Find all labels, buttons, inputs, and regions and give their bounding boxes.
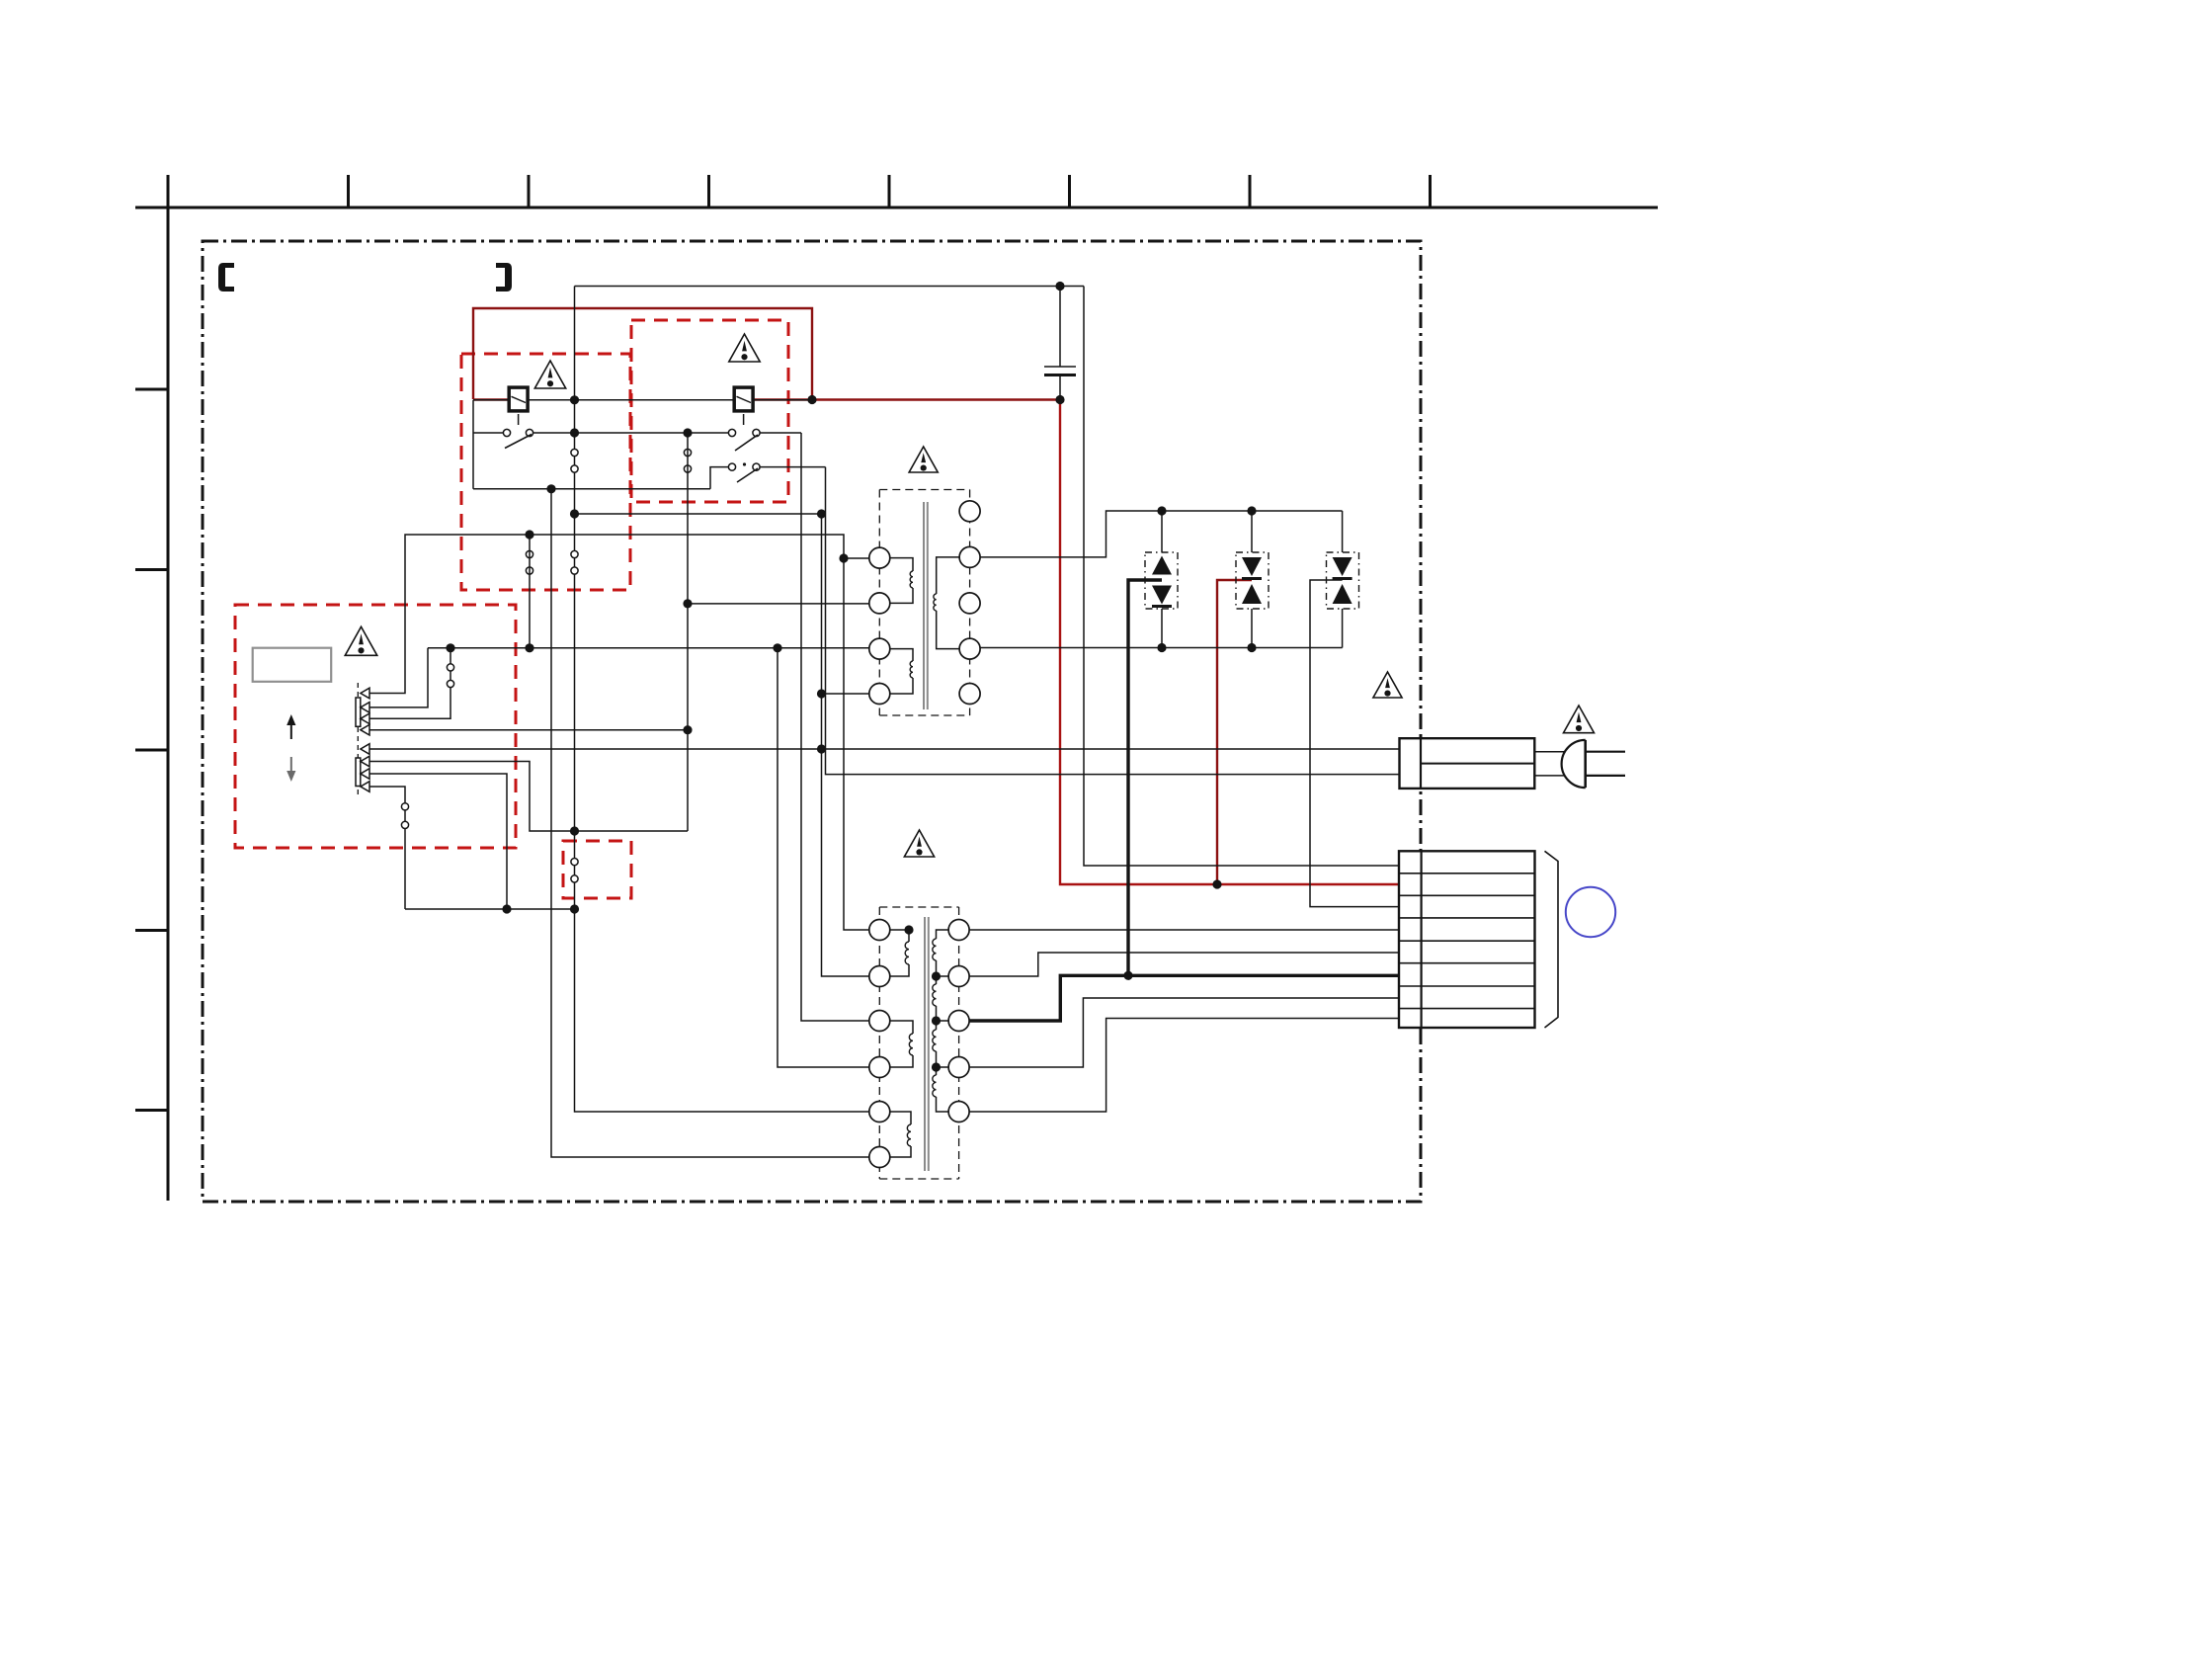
wire cord to plug <box>1534 752 1565 776</box>
junction node 3 <box>807 395 816 404</box>
slide switch dashed axis <box>357 683 359 798</box>
connector CN901 block <box>1399 851 1535 1028</box>
ruler tick left 1 <box>135 388 168 391</box>
T901 pin left 4 <box>869 684 890 705</box>
connector bracket <box>1545 851 1559 1028</box>
red dashed box mechanism C <box>235 605 516 848</box>
T901 pin left 2 <box>869 593 890 614</box>
wire y541 top link <box>369 535 844 694</box>
wire switch row2 right <box>760 466 826 468</box>
border ruler left line <box>167 175 170 1201</box>
junction node 5 <box>570 428 579 437</box>
wire x787 drop to transformer pin4 <box>778 648 869 1067</box>
red dashed box switch block A <box>461 354 630 590</box>
wire diode3 leads <box>1342 511 1344 648</box>
junction node 6 <box>683 428 692 437</box>
contact pair on x696 upper <box>684 449 691 456</box>
AC plug <box>1562 740 1586 788</box>
wire contact2 riser <box>369 648 428 707</box>
wire T902 out pin5 <box>969 1019 1399 1113</box>
junction node 8 <box>525 530 533 539</box>
slide contact 3 <box>361 713 369 724</box>
ruler tick top 6 <box>1068 175 1071 208</box>
relay RY901 <box>509 387 528 411</box>
wire switch row1 left <box>473 432 504 434</box>
warning triangle mechanism <box>345 626 376 655</box>
ruler tick top 7 <box>1249 175 1252 208</box>
AC cord block <box>1400 738 1535 789</box>
slide switch slider upper <box>356 698 361 726</box>
T902 pin right 2 <box>948 966 969 987</box>
wire diode bottom bus <box>980 647 1343 649</box>
wire right drop to connector pin1 <box>1084 287 1399 867</box>
warning triangle cord left <box>1373 672 1402 698</box>
T902 winding left A <box>890 930 909 942</box>
wire left return riser <box>472 400 474 489</box>
slide switch slider lower <box>356 758 361 787</box>
wire primary red loop <box>473 308 812 399</box>
contact pair in red box D <box>571 859 578 866</box>
wire T902 out pin2 <box>969 953 1399 976</box>
T901 pin right 1 <box>959 501 980 522</box>
junction node 21 <box>773 643 781 652</box>
junction node 13 <box>817 744 826 753</box>
wire diode3 tap <box>1310 580 1399 907</box>
gray mechanism box <box>253 648 332 682</box>
wire switch row2 left <box>710 467 729 489</box>
wire red under relay1 <box>473 398 509 400</box>
switch S2 contacts <box>728 463 735 470</box>
wire red diode2 tap <box>1217 580 1252 884</box>
T902 pin right 1 <box>948 920 969 941</box>
diode pair D901 <box>1145 552 1178 609</box>
junction node 16 <box>683 599 692 608</box>
junction node 18 <box>683 725 692 734</box>
T901 pin right 5 <box>959 684 980 705</box>
ruler tick top 8 <box>1429 175 1432 208</box>
slide contact 4 <box>361 724 369 735</box>
ruler tick top 5 <box>888 175 891 208</box>
wire x696 column <box>687 433 689 831</box>
wire secondary to diode bus <box>980 511 1343 557</box>
junction node 4 <box>570 395 579 404</box>
T902 pin left 4 <box>869 1057 890 1078</box>
border ruler top line <box>135 207 1658 209</box>
wire return bottom <box>473 488 710 490</box>
wire red live feed to connector <box>1060 400 1399 885</box>
slide contact 6 <box>361 756 369 767</box>
arrow down <box>290 757 292 771</box>
transformer T902 dashed box <box>879 907 958 1179</box>
T902 pin left 1 <box>869 920 890 941</box>
slide contact 5 <box>361 744 369 755</box>
wire y611 to transformer pin2t <box>688 603 869 605</box>
switch S1-2 contacts <box>728 429 735 436</box>
diode pair D902 <box>1236 552 1269 609</box>
ruler tick left 5 <box>135 1109 168 1112</box>
wire y702 stub to transformer pin4t <box>822 693 869 695</box>
junction node 14 <box>446 643 454 652</box>
slide contact 1 <box>361 688 369 699</box>
ruler tick top 3 <box>528 175 531 208</box>
T902 pin left 5 <box>869 1102 890 1123</box>
wire contact4 <box>369 729 688 731</box>
wire relay row <box>473 399 812 401</box>
ruler tick left 3 <box>135 749 168 752</box>
junction node 27 <box>1123 971 1132 980</box>
ruler tick left 2 <box>135 568 168 571</box>
wire T902 out pin1 <box>969 929 1399 931</box>
wire x536 upper column <box>529 535 531 648</box>
junction node 22 <box>1157 506 1166 515</box>
contact pair on x581 upper <box>571 449 578 456</box>
junction node 29 <box>932 1016 941 1025</box>
left lens bracket <box>218 263 234 291</box>
chassis dash-dot border box <box>203 241 1421 1202</box>
callout blue circle <box>1566 887 1615 937</box>
wire y520 link <box>575 513 822 515</box>
junction node 24 <box>1157 643 1166 652</box>
junction node 2 <box>1055 395 1064 404</box>
wire cord line1 <box>369 748 1400 750</box>
slide contact 7 <box>361 769 369 780</box>
ruler tick top 1 <box>167 175 170 208</box>
junction node 30 <box>932 1062 941 1071</box>
junction node 26 <box>1212 879 1221 888</box>
switch S1-1 contacts <box>503 429 510 436</box>
transformer T902 core <box>924 917 926 1171</box>
wire red relay2 to corner <box>752 398 812 400</box>
junction node 19 <box>502 904 511 913</box>
wire T902 out pin3 thick <box>969 975 1399 1021</box>
wire switch row1 mid <box>533 432 729 434</box>
T902 pin left 2 <box>869 966 890 987</box>
wire contact8 drop <box>369 787 575 909</box>
T901 pin right 4 <box>959 638 980 659</box>
warning triangle transformer T902 <box>904 830 934 857</box>
wire switch row1 right <box>760 432 801 434</box>
wire diode2 leads <box>1251 511 1253 648</box>
junction node 28 <box>932 971 941 980</box>
junction node 31 <box>904 925 913 934</box>
junction node 11 <box>817 509 826 518</box>
T901 pin left 1 <box>869 547 890 568</box>
relay RY902 <box>734 387 753 411</box>
T902 winding taps <box>937 976 949 1067</box>
wire top bus <box>575 286 1085 288</box>
capacitor C901 <box>1044 287 1076 400</box>
wire y655 bus left <box>428 647 869 649</box>
T902 pin left 3 <box>869 1011 890 1032</box>
wire T902 out pin4 <box>969 998 1399 1067</box>
T901 pin right 3 <box>959 593 980 614</box>
wire x831 drop to transformer pin2 <box>822 514 869 976</box>
AC plug prongs <box>1586 752 1625 776</box>
wire x854 drop to transformer pin1 <box>844 558 869 930</box>
wire cord line2 <box>826 467 1400 775</box>
T901 pin right 2 <box>959 546 980 567</box>
T901 pin left 3 <box>869 638 890 659</box>
contact pair on x456 <box>447 664 453 671</box>
wire contact3 riser <box>369 648 451 719</box>
junction node 10 <box>570 509 579 518</box>
junction node 7 <box>546 484 555 493</box>
T902 winding left C <box>890 1112 911 1124</box>
transformer T901 core <box>923 502 925 709</box>
warning triangle relay1 <box>534 361 565 388</box>
diode pair D903 <box>1327 552 1359 609</box>
T901 winding right <box>937 557 959 594</box>
T901 winding left lower <box>890 649 913 661</box>
wire contact7 drop <box>369 774 507 909</box>
contact pair on x410 <box>401 803 408 810</box>
wire long vertical to transformer pin5 <box>575 287 869 1113</box>
T902 pin right 4 <box>948 1057 969 1078</box>
wire diode1 tap thick <box>1128 580 1162 975</box>
wire red corner to capacitor <box>812 398 1060 400</box>
ruler tick left 4 <box>135 929 168 932</box>
junction node 9 <box>839 553 848 562</box>
T901 winding left upper <box>890 558 913 571</box>
junction node 23 <box>1247 506 1256 515</box>
ruler tick top 4 <box>707 175 710 208</box>
junction node 12 <box>817 689 826 698</box>
junction node 20 <box>570 904 579 913</box>
T902 pin right 5 <box>948 1102 969 1123</box>
warning triangle transformer T901 <box>909 447 938 472</box>
red dashed box switch block B <box>631 320 788 502</box>
wire contact6 link <box>369 762 688 832</box>
arrow up <box>290 725 292 739</box>
red dashed box contact D <box>563 841 631 898</box>
junction node 25 <box>1247 643 1256 652</box>
junction node 15 <box>525 643 533 652</box>
ruler tick top 2 <box>347 175 350 208</box>
T902 pin right 3 <box>948 1011 969 1032</box>
T902 pin left 6 <box>869 1147 890 1168</box>
transformer T901 dashed box <box>879 490 969 716</box>
slide contact 8 <box>361 782 369 792</box>
right lens bracket <box>496 263 512 291</box>
warning triangle relay2 <box>729 334 760 362</box>
slide contact 2 <box>361 703 369 713</box>
wire riser to transformer pin3 <box>801 433 869 1021</box>
junction node 1 <box>1055 282 1064 291</box>
T902 winding left B <box>890 1021 913 1034</box>
T902 winding right chain <box>937 930 949 939</box>
wire x558 drop to transformer pin6 <box>551 489 869 1157</box>
contact pair on x581 mid <box>571 550 578 557</box>
contact pair on x536 <box>526 550 533 557</box>
wire diode1 leads <box>1161 511 1163 648</box>
warning triangle plug <box>1563 706 1594 733</box>
junction node 17 <box>570 826 579 835</box>
